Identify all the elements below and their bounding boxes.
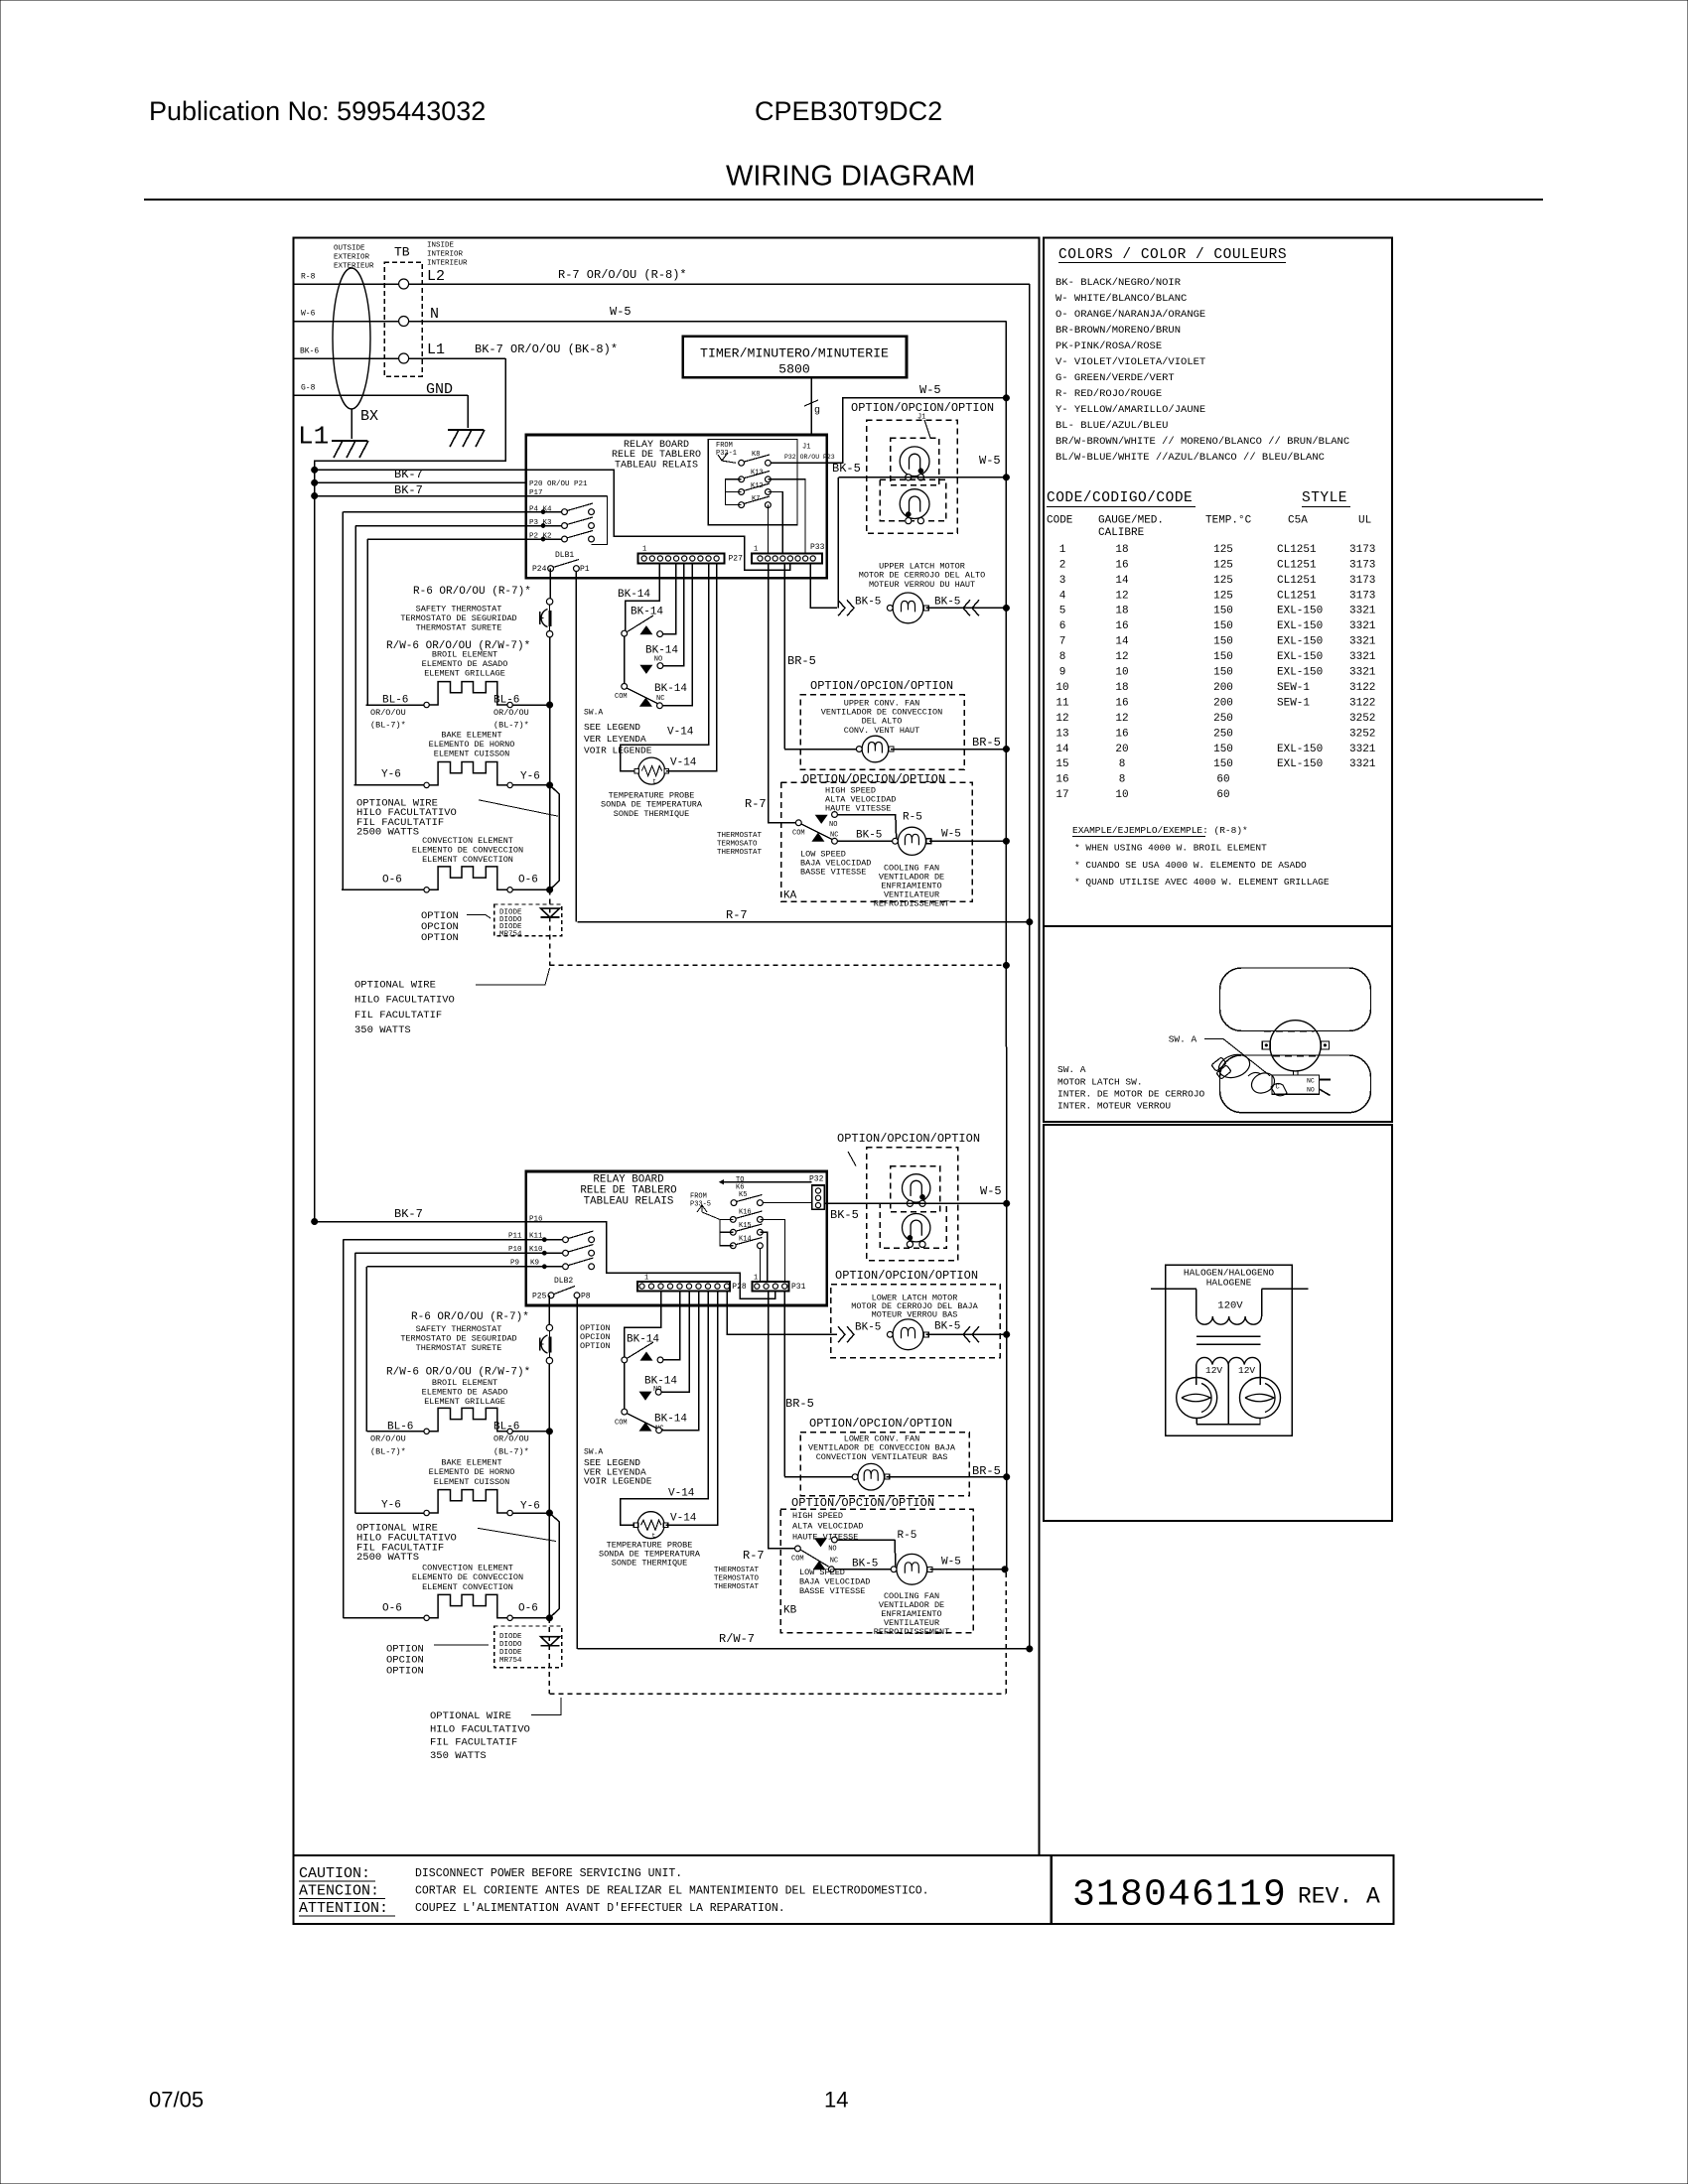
latch motor shaft — [1293, 1071, 1295, 1075]
svg-text:BL-6: BL-6 — [387, 1422, 413, 1433]
terminal block TB dashed box — [384, 262, 422, 376]
latch microswitch box — [1272, 1075, 1319, 1094]
svg-text:THERMOSTAT SURETE: THERMOSTAT SURETE — [416, 623, 502, 633]
wire BK-5 lower fan feed from P32 — [824, 1202, 1007, 1204]
svg-text:BK-5: BK-5 — [830, 1208, 859, 1222]
svg-text:6: 6 — [1059, 620, 1066, 632]
svg-text:MR754: MR754 — [499, 1657, 522, 1665]
svg-text:OPTION/OPCION/OPTION: OPTION/OPCION/OPTION — [791, 1496, 934, 1510]
svg-text:THERMOSTAT: THERMOSTAT — [717, 849, 763, 857]
broil element lower — [366, 1431, 425, 1433]
svg-text:12V: 12V — [1205, 1365, 1222, 1376]
svg-text:Y-6: Y-6 — [381, 1500, 401, 1512]
svg-text:THERMOSTAT: THERMOSTAT — [714, 1583, 760, 1591]
wire BK-5 vertical from fans to latch chevron — [837, 478, 839, 609]
svg-text:NO: NO — [829, 821, 837, 829]
wire R-7 top : L2 to right column — [409, 283, 1030, 285]
svg-text:STYLE: STYLE — [1302, 490, 1347, 506]
svg-text:TABLEAU RELAIS: TABLEAU RELAIS — [615, 461, 698, 472]
svg-text:R/W-6 OR/O/OU (R/W-7)*: R/W-6 OR/O/OU (R/W-7)* — [386, 1367, 530, 1379]
svg-text:200: 200 — [1213, 697, 1233, 709]
svg-text:NC: NC — [1307, 1078, 1315, 1085]
svg-text:12: 12 — [1115, 590, 1128, 602]
option fans outer dashed box upper — [867, 420, 958, 533]
svg-text:W-6: W-6 — [301, 310, 316, 319]
svg-text:REV. A: REV. A — [1298, 1884, 1380, 1910]
cooling fan dashed box lower — [780, 1509, 973, 1633]
svg-text:CL1251: CL1251 — [1277, 544, 1317, 556]
svg-text:ATENCION:: ATENCION: — [299, 1883, 379, 1900]
svg-text:GAUGE/MED.: GAUGE/MED. — [1098, 514, 1164, 526]
svg-text:350 WATTS: 350 WATTS — [430, 1750, 487, 1762]
svg-text:16: 16 — [1115, 620, 1128, 632]
wire bus broil to bake — [549, 705, 551, 785]
svg-text:17: 17 — [1055, 789, 1068, 801]
upper latch motor — [893, 593, 923, 623]
svg-text:MOTEUR VERROU BAS: MOTEUR VERROU BAS — [872, 1310, 958, 1320]
svg-text:P16: P16 — [529, 1216, 543, 1224]
svg-text:OPTION/OPCION/OPTION: OPTION/OPCION/OPTION — [802, 772, 945, 786]
svg-text:HAUTE VITESSE: HAUTE VITESSE — [792, 1532, 858, 1542]
svg-text:3321: 3321 — [1349, 606, 1376, 617]
svg-text:R/W-7: R/W-7 — [719, 1632, 755, 1646]
svg-text:INSIDE: INSIDE — [427, 242, 455, 250]
svg-text:CPEB30T9DC2: CPEB30T9DC2 — [755, 96, 942, 126]
svg-text:NC: NC — [830, 831, 838, 839]
svg-text:ELEMENTO DE ASADO: ELEMENTO DE ASADO — [422, 1387, 508, 1397]
chevron right lower latch — [972, 1326, 979, 1342]
svg-text:Y- YELLOW/AMARILLO/JAUNE: Y- YELLOW/AMARILLO/JAUNE — [1055, 404, 1205, 416]
svg-text:TIMER/MINUTERO/MINUTERIE: TIMER/MINUTERO/MINUTERIE — [700, 345, 889, 360]
halogen lamp 2 — [1240, 1378, 1281, 1419]
svg-text:W-5: W-5 — [919, 383, 941, 397]
junction BK-7 b — [311, 479, 318, 486]
svg-text:NO: NO — [654, 655, 662, 663]
svg-text:14: 14 — [1115, 575, 1129, 587]
upper conv fan motor — [784, 749, 860, 751]
svg-text:TERMOSATO: TERMOSATO — [717, 841, 758, 849]
wire main element bus upper — [549, 637, 551, 705]
svg-text:BK-5: BK-5 — [856, 830, 882, 842]
svg-text:125: 125 — [1213, 544, 1233, 556]
svg-text:OPTION/OPCION/OPTION: OPTION/OPCION/OPTION — [809, 1417, 952, 1431]
svg-text:WIRING DIAGRAM: WIRING DIAGRAM — [726, 161, 975, 193]
svg-text:CAUTION:: CAUTION: — [299, 1865, 370, 1882]
wire timer to relay J1 — [810, 377, 812, 435]
svg-text:R-8: R-8 — [301, 273, 316, 282]
svg-text:COM: COM — [791, 1555, 804, 1563]
svg-text:EXTERIOR: EXTERIOR — [334, 254, 370, 262]
svg-text:3173: 3173 — [1349, 575, 1375, 587]
svg-text:ELEMENT GRILLAGE: ELEMENT GRILLAGE — [424, 669, 505, 679]
svg-text:O-6: O-6 — [518, 875, 538, 887]
svg-text:12V: 12V — [1238, 1365, 1255, 1376]
svg-text:8: 8 — [1059, 651, 1066, 663]
svg-text:W-5: W-5 — [941, 1557, 961, 1569]
leader optional wire 2500W — [479, 800, 558, 816]
wire bake left feed (K10) — [354, 1253, 356, 1513]
svg-text:ELEMENTO DE HORNO: ELEMENTO DE HORNO — [429, 740, 515, 750]
transformer secondary coils — [1196, 1357, 1260, 1364]
svg-text:OR/O/OU: OR/O/OU — [370, 1433, 406, 1443]
svg-text:TABLEAU RELAIS: TABLEAU RELAIS — [584, 1196, 674, 1208]
wire R-7 vertical right — [1029, 284, 1031, 922]
wire R-7 bottom upper half — [578, 921, 1030, 923]
svg-text:* QUAND UTILISE AVEC 4000 W. E: * QUAND UTILISE AVEC 4000 W. ELEMENT GRI… — [1074, 877, 1330, 887]
main schematic frame — [294, 238, 1040, 1856]
wire P27 pin3 to SW.A top — [626, 564, 660, 631]
svg-text:BK-7 OR/O/OU (BK-8)*: BK-7 OR/O/OU (BK-8)* — [475, 342, 618, 356]
ground symbol BX — [332, 440, 367, 442]
svg-text:OR/O/OU: OR/O/OU — [493, 1433, 529, 1443]
svg-text:P33: P33 — [810, 543, 825, 552]
wire SW.A upper to P28 pin5 lower — [663, 1291, 680, 1360]
svg-text:BAKE ELEMENT: BAKE ELEMENT — [441, 730, 501, 740]
svg-text:1: 1 — [644, 1274, 648, 1282]
broil element upper — [365, 704, 425, 706]
wire bake left feed (K3) — [354, 526, 356, 785]
svg-text:BR-BROWN/MORENO/BRUN: BR-BROWN/MORENO/BRUN — [1055, 325, 1181, 337]
wire broil left feed (K9) — [365, 1267, 367, 1432]
svg-text:P28: P28 — [732, 1283, 747, 1292]
svg-text:OPTION/OPCION/OPTION: OPTION/OPCION/OPTION — [810, 679, 953, 693]
wire bus broil to bake lower — [548, 1432, 550, 1513]
option fans outer dashed box lower — [867, 1148, 958, 1261]
svg-text:BL-6: BL-6 — [493, 695, 519, 707]
wire latch feed from P33 — [810, 564, 837, 609]
svg-text:Y-6: Y-6 — [520, 1501, 540, 1513]
wire R-8 into L2 — [295, 283, 399, 285]
svg-text:PK-PINK/ROSA/ROSE: PK-PINK/ROSA/ROSE — [1055, 341, 1162, 352]
temperature probe loop lower — [621, 1291, 708, 1525]
wire lower latch to W-5 — [926, 1333, 1007, 1335]
svg-text:COLORS / COLOR / COULEURS: COLORS / COLOR / COULEURS — [1058, 247, 1287, 263]
lower option fan 1 — [903, 1174, 930, 1202]
svg-text:16: 16 — [1115, 559, 1128, 571]
svg-text:SAFETY THERMOSTAT: SAFETY THERMOSTAT — [416, 1324, 502, 1334]
svg-text:CODE/CODIGO/CODE: CODE/CODIGO/CODE — [1047, 490, 1193, 506]
svg-text:INTERIOR: INTERIOR — [427, 251, 464, 259]
svg-text:BK-7: BK-7 — [394, 483, 423, 497]
svg-text:VOIR LEGENDE: VOIR LEGENDE — [584, 746, 652, 756]
svg-text:BK-5: BK-5 — [832, 462, 861, 476]
svg-text:2: 2 — [1059, 559, 1066, 571]
relay internal trace common to P33 — [315, 470, 790, 570]
diode MR754 lower — [541, 1637, 560, 1646]
wire BK-7 to lower relay P16 — [315, 1221, 526, 1223]
svg-text:9: 9 — [1059, 667, 1066, 679]
svg-text:3321: 3321 — [1349, 636, 1376, 648]
svg-text:OPTION: OPTION — [386, 1666, 424, 1678]
svg-text:15: 15 — [1055, 758, 1068, 770]
svg-text:(BL-7)*: (BL-7)* — [370, 720, 406, 730]
svg-text:150: 150 — [1213, 636, 1233, 648]
svg-text:INTER. MOTEUR VERROU: INTER. MOTEUR VERROU — [1057, 1101, 1171, 1112]
svg-text:FROM: FROM — [690, 1192, 707, 1200]
svg-text:CONV. VENT HAUT: CONV. VENT HAUT — [844, 726, 920, 736]
svg-text:P31: P31 — [791, 1283, 806, 1292]
SW.A NC contact upper — [657, 703, 663, 709]
svg-text:10: 10 — [1115, 667, 1128, 679]
svg-text:ELEMENT CUISSON: ELEMENT CUISSON — [434, 1477, 510, 1487]
svg-text:V- VIOLET/VIOLETA/VIOLET: V- VIOLET/VIOLETA/VIOLET — [1055, 356, 1205, 368]
svg-text:ELEMENTO DE CONVECCION: ELEMENTO DE CONVECCION — [412, 1572, 523, 1582]
svg-text:OPTION: OPTION — [421, 932, 459, 944]
svg-text:OR/O/OU: OR/O/OU — [370, 708, 406, 718]
upper cooling fan motor — [898, 827, 925, 855]
svg-text:EXL-150: EXL-150 — [1277, 758, 1323, 770]
cooling fan NO contact upper — [832, 812, 838, 818]
svg-text:OUTSIDE: OUTSIDE — [334, 245, 365, 253]
svg-text:O-6: O-6 — [382, 875, 402, 887]
svg-text:W-5: W-5 — [610, 305, 632, 319]
chevron right upper latch — [972, 600, 979, 615]
svg-text:EXTERIEUR: EXTERIEUR — [334, 263, 374, 271]
svg-text:CL1251: CL1251 — [1277, 575, 1317, 587]
svg-text:BR-5: BR-5 — [972, 736, 1001, 750]
svg-text:EXL-150: EXL-150 — [1277, 651, 1323, 663]
svg-text:10: 10 — [1055, 682, 1068, 694]
svg-text:ALTA VELOCIDAD: ALTA VELOCIDAD — [792, 1522, 863, 1532]
wire W-5 : N to right — [409, 321, 1007, 323]
svg-text:t: t — [652, 778, 656, 785]
svg-text:N: N — [430, 306, 439, 323]
svg-text:BR/W-BROWN/WHITE // MORENO/BLA: BR/W-BROWN/WHITE // MORENO/BLANCO // BRU… — [1055, 436, 1349, 448]
diode dashed box upper — [494, 904, 562, 936]
SW.A NC contact lower — [656, 1428, 662, 1433]
right column frame: colors/code panel — [1044, 238, 1392, 927]
svg-text:BK- BLACK/NEGRO/NOIR: BK- BLACK/NEGRO/NOIR — [1055, 277, 1182, 289]
svg-text:Y-6: Y-6 — [520, 771, 540, 783]
wire W-5 vertical lower — [1006, 1203, 1008, 1570]
svg-text:EXL-150: EXL-150 — [1277, 620, 1323, 632]
bake element coil upper — [424, 782, 429, 787]
svg-text:150: 150 — [1213, 651, 1233, 663]
svg-text:NC: NC — [656, 695, 664, 703]
K16 K15 K14 left bus — [720, 1219, 733, 1245]
safety thermostat upper contact lower — [546, 1324, 552, 1330]
svg-text:SEW-1: SEW-1 — [1277, 682, 1310, 694]
svg-text:MOTEUR VERROU DU HAUT: MOTEUR VERROU DU HAUT — [869, 580, 975, 590]
svg-text:HALOGENE: HALOGENE — [1206, 1278, 1252, 1289]
svg-text:SW. A: SW. A — [1057, 1064, 1086, 1075]
latch cable connector b — [1216, 1065, 1231, 1079]
svg-text:O-6: O-6 — [382, 1603, 402, 1615]
ground symbol GND — [448, 429, 484, 431]
svg-text:NO: NO — [828, 1545, 836, 1553]
header rule — [144, 199, 1543, 201]
svg-text:CONVECTION ELEMENT: CONVECTION ELEMENT — [422, 836, 513, 846]
fan inner dashed box 1 — [891, 438, 939, 485]
wire K8 output to W-5 top — [827, 398, 1007, 464]
svg-text:BK-5: BK-5 — [934, 1321, 960, 1333]
wire bus bake to convection lower — [548, 1513, 550, 1618]
connector P33 — [752, 554, 822, 564]
latch cable squiggle — [1248, 1072, 1261, 1076]
svg-text:BAKE ELEMENT: BAKE ELEMENT — [441, 1457, 501, 1467]
halogen feed wires — [1151, 1288, 1196, 1290]
wire bus bake to convection — [549, 785, 551, 889]
svg-text:ELEMENTO DE ASADO: ELEMENTO DE ASADO — [422, 659, 508, 669]
svg-text:W-5: W-5 — [979, 454, 1001, 468]
svg-text:ATTENTION:: ATTENTION: — [299, 1900, 388, 1917]
svg-text:EXL-150: EXL-150 — [1277, 744, 1323, 755]
svg-text:1: 1 — [754, 545, 758, 553]
svg-text:EXL-150: EXL-150 — [1277, 636, 1323, 648]
safety thermostat symbol upper — [539, 612, 541, 624]
svg-text:G-8: G-8 — [301, 384, 316, 393]
wire R-7 vertical lower — [1029, 922, 1031, 1649]
svg-text:CL1251: CL1251 — [1277, 559, 1317, 571]
svg-text:BROIL ELEMENT: BROIL ELEMENT — [432, 649, 497, 659]
svg-text:DLB1: DLB1 — [555, 551, 574, 560]
svg-text:SEE LEGEND: SEE LEGEND — [584, 722, 640, 733]
SW.A switch upper contact lower — [622, 1357, 628, 1363]
svg-text:SW. A: SW. A — [1169, 1034, 1197, 1045]
convection element coil lower — [424, 1615, 429, 1620]
wire latch feed lower — [727, 1291, 837, 1334]
svg-text:W- WHITE/BLANCO/BLANC: W- WHITE/BLANCO/BLANC — [1055, 293, 1187, 305]
svg-text:13: 13 — [1055, 728, 1068, 740]
svg-text:OPTIONAL WIRE: OPTIONAL WIRE — [354, 980, 436, 992]
svg-text:TERMOSTATO DE SEGURIDAD: TERMOSTATO DE SEGURIDAD — [400, 1333, 516, 1343]
svg-text:18: 18 — [1115, 682, 1128, 694]
svg-text:EXL-150: EXL-150 — [1277, 667, 1323, 679]
latch cam rounded rect top — [1220, 968, 1371, 1031]
svg-text:R- RED/ROJO/ROUGE: R- RED/ROJO/ROUGE — [1055, 388, 1162, 400]
convection element coil upper — [424, 887, 429, 892]
svg-text:CL1251: CL1251 — [1277, 590, 1317, 602]
svg-text:VER LEYENDA: VER LEYENDA — [584, 734, 646, 745]
svg-text:OPTION: OPTION — [580, 1341, 611, 1351]
broil element coil lower — [424, 1429, 429, 1433]
safety thermostat upper contact — [546, 599, 552, 605]
svg-text:12: 12 — [1115, 713, 1128, 725]
svg-text:V-14: V-14 — [670, 757, 697, 769]
svg-text:MOTOR LATCH SW.: MOTOR LATCH SW. — [1057, 1076, 1143, 1087]
svg-text:200: 200 — [1213, 682, 1233, 694]
svg-text:125: 125 — [1213, 575, 1233, 587]
cooling fan dashed box upper — [781, 782, 973, 901]
svg-text:OPTION/OPCION/OPTION: OPTION/OPCION/OPTION — [837, 1132, 980, 1146]
convection element upper — [342, 888, 425, 890]
terminal L1 — [399, 353, 409, 363]
svg-text:BK-5: BK-5 — [852, 1559, 878, 1570]
svg-text:BROIL ELEMENT: BROIL ELEMENT — [432, 1378, 497, 1388]
latch cable connector a — [1211, 1057, 1226, 1071]
cooling fan NO contact lower — [832, 1537, 838, 1543]
svg-text:THERMOSTAT SURETE: THERMOSTAT SURETE — [416, 1343, 502, 1353]
SW.A switch upper contact — [622, 630, 628, 636]
svg-text:CODE: CODE — [1047, 514, 1073, 526]
svg-text:(BL-7)*: (BL-7)* — [493, 720, 529, 730]
dashed riser to W-5 lower — [1005, 1570, 1007, 1694]
convection element lower — [344, 1617, 425, 1619]
svg-text:COUPEZ L'ALIMENTATION AVANT D': COUPEZ L'ALIMENTATION AVANT D'EFFECTUER … — [415, 1902, 785, 1915]
svg-text:KB: KB — [783, 1605, 797, 1617]
svg-text:10: 10 — [1115, 789, 1128, 801]
svg-text:V-14: V-14 — [668, 1488, 695, 1500]
svg-text:18: 18 — [1115, 606, 1128, 617]
svg-text:J1: J1 — [802, 443, 810, 451]
connector P27 — [638, 554, 725, 564]
dashed wire through diode upper — [549, 889, 551, 965]
svg-text:TB: TB — [394, 244, 410, 259]
svg-text:R-6 OR/O/OU (R-7)*: R-6 OR/O/OU (R-7)* — [411, 1311, 529, 1323]
svg-text:CONVECTION ELEMENT: CONVECTION ELEMENT — [422, 1563, 513, 1572]
svg-text:CALIBRE: CALIBRE — [1098, 527, 1145, 539]
svg-text:RELAY BOARD: RELAY BOARD — [624, 440, 689, 451]
wire BK-6 into L1 — [295, 357, 399, 359]
fan inner dashed box 2 — [880, 479, 946, 520]
svg-text:TEMP.°C: TEMP.°C — [1205, 514, 1252, 526]
wire BK-7 main vertical to lower oven — [314, 496, 316, 1222]
wire W-6 into N — [295, 321, 399, 323]
svg-text:V-14: V-14 — [667, 727, 694, 739]
wire G-8 to GND — [295, 394, 469, 396]
svg-text:BK-14: BK-14 — [631, 607, 663, 618]
svg-text:BL-6: BL-6 — [382, 695, 408, 707]
svg-text:BK-5: BK-5 — [855, 1322, 881, 1334]
connector P32 — [812, 1185, 825, 1209]
svg-text:250: 250 — [1213, 728, 1233, 740]
wire BR-5 from P31 down to lower conv fan — [783, 1291, 785, 1476]
svg-text:P24: P24 — [532, 565, 547, 574]
svg-text:07/05: 07/05 — [149, 2087, 204, 2112]
svg-text:SAFETY THERMOSTAT: SAFETY THERMOSTAT — [416, 604, 502, 614]
fan inner dashed box 1 lower — [891, 1166, 940, 1212]
lower cooling fan motor — [897, 1554, 927, 1584]
svg-text:350 WATTS: 350 WATTS — [354, 1024, 411, 1036]
wire P1 down to R-7 line — [575, 572, 577, 922]
relay lower internal trace to P31 — [526, 1222, 775, 1299]
SW.A NO contact upper — [657, 663, 663, 669]
wire P8 down to R/W-7 line — [576, 1298, 578, 1649]
svg-text:NC: NC — [830, 1557, 838, 1565]
bake element lower — [355, 1512, 426, 1514]
diode MR754 upper — [541, 908, 560, 917]
svg-text:Publication No: 5995443032: Publication No: 5995443032 — [149, 96, 486, 126]
svg-text:CONVECTION VENTILATEUR BAS: CONVECTION VENTILATEUR BAS — [816, 1452, 948, 1462]
svg-text:BK-14: BK-14 — [627, 1334, 659, 1346]
svg-text:60: 60 — [1216, 789, 1229, 801]
optional wire 2500W parallel run upper — [550, 785, 560, 889]
svg-text:THERMOSTAT: THERMOSTAT — [717, 832, 763, 840]
latch motor side squares — [1262, 1041, 1270, 1049]
wire from BX oval to ground — [351, 409, 352, 439]
latch cam rounded rect bottom — [1220, 1055, 1371, 1113]
wire thermostat feed lower — [769, 1291, 794, 1549]
dashed optional wire 350W upper — [550, 964, 1007, 966]
junction BK-7 c — [311, 492, 318, 499]
wire P24 down to safety thermostat — [549, 569, 551, 599]
wire thermostat feed from P33 — [769, 564, 795, 823]
part number box — [1052, 1855, 1394, 1924]
junction BK-7 a — [311, 467, 318, 474]
upper option fan 2 — [900, 489, 929, 519]
svg-text:R-5: R-5 — [898, 1530, 917, 1542]
transformer core — [1196, 1335, 1261, 1337]
cooling fan NC contact lower — [828, 1567, 834, 1572]
svg-text:Y-6: Y-6 — [381, 769, 401, 781]
transformer primary coil — [1196, 1316, 1262, 1324]
svg-text:16: 16 — [1055, 774, 1068, 786]
svg-text:VOIR LEGENDE: VOIR LEGENDE — [584, 1476, 652, 1487]
svg-text:7: 7 — [1059, 636, 1066, 648]
svg-text:BK-5: BK-5 — [934, 597, 960, 609]
svg-text:P20 OR/OU P21: P20 OR/OU P21 — [529, 480, 588, 488]
svg-text:250: 250 — [1213, 713, 1233, 725]
